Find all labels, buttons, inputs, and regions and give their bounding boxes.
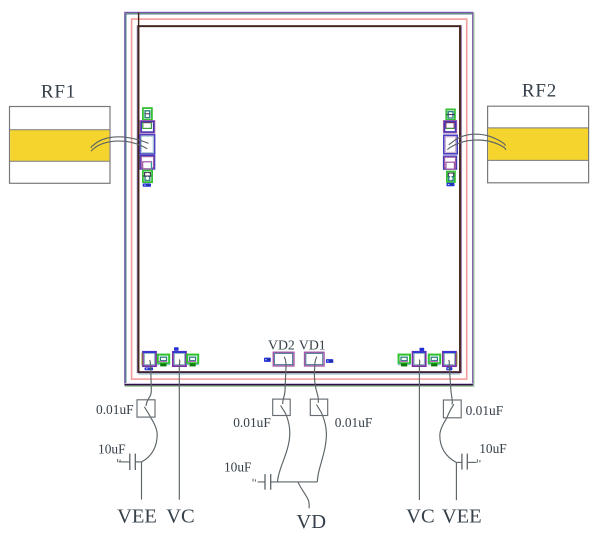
port RF1 microstrip	[10, 107, 111, 184]
svg-text:RF2: RF2	[522, 81, 557, 102]
pad stack right: pad P_R1	[444, 121, 457, 133]
pad stack left: via icon top	[143, 108, 152, 120]
wire VD node horizontal	[271, 481, 318, 483]
chip outline bottom dark accent	[125, 384, 473, 386]
pad stack right: via icon bottom	[447, 172, 455, 183]
bottom-left via icon G2	[187, 355, 199, 367]
svg-text:VC: VC	[406, 506, 434, 528]
bottom-left pad P1 (VEE)	[142, 352, 156, 366]
wire to VEE right	[455, 462, 457, 500]
wire P4 to C6	[449, 360, 453, 405]
capacitor C6 0.01uF box	[443, 400, 461, 418]
chip bottom steelblue line	[139, 373, 461, 375]
pad stack right: via icon top	[446, 109, 455, 120]
svg-text:VD: VD	[296, 511, 326, 533]
wire C3 to 10uF node	[278, 406, 290, 482]
bottom-left P2 blue net tag top	[174, 347, 179, 350]
pad stack left: pad P_L1	[140, 121, 154, 133]
chip outline pink layer	[132, 19, 467, 379]
svg-text:RF1: RF1	[41, 82, 76, 103]
capacitor C1 0.01uF box	[137, 400, 155, 417]
capacitor C7 10uF right	[456, 454, 476, 470]
pad stack left: via icon bottom	[143, 171, 152, 183]
capacitor C4 0.01uF box	[310, 399, 327, 415]
port RF2 microstrip	[488, 106, 589, 183]
wire C4 to 10uF node	[316, 405, 326, 482]
pad stack left: pad P_L3	[140, 156, 154, 169]
wire RF1 to pad lower arc	[91, 141, 147, 151]
bottom-right via icon G4	[428, 355, 440, 367]
svg-text:VD1: VD1	[299, 337, 326, 352]
chip outline bottom green line	[125, 385, 473, 387]
chip outline teal layer (sides+top)	[126, 14, 472, 384]
pad stack right: pad P_R2 (RF)	[444, 135, 457, 154]
chip outline purple layer	[125, 12, 473, 384]
svg-text:10uF: 10uF	[98, 442, 126, 457]
bottom-right P3 blue net tag top	[420, 348, 425, 351]
bottom-right via icon G3	[398, 355, 410, 367]
wire to VD	[298, 482, 309, 508]
wire VD2 to C3	[283, 357, 286, 404]
chip bottom maroon-purple tint	[139, 371, 461, 373]
wire VD1 to C4	[314, 357, 318, 403]
bottom-right P4 blue net tag	[446, 367, 452, 370]
wire P1 to C1	[146, 360, 151, 406]
bottom-left via icon G1	[157, 355, 170, 367]
svg-text:VD2: VD2	[268, 337, 295, 352]
bottom-right pad P3 (VC)	[413, 352, 426, 366]
wire pad to RF2 upper arc	[449, 134, 506, 145]
svg-text:VEE: VEE	[442, 506, 482, 528]
svg-text:0.01uF: 0.01uF	[96, 402, 134, 417]
bottom-left P1 blue net tag	[145, 367, 153, 370]
wire pad to RF2 lower arc	[447, 140, 505, 150]
svg-text:0.01uF: 0.01uF	[466, 403, 504, 418]
VD1 blue net tag right	[326, 359, 333, 363]
capacitor C3 0.01uF box	[273, 399, 291, 415]
diode pad VD1	[305, 352, 324, 366]
chip outline purple fringe around maroon	[137, 26, 461, 373]
svg-text:VC: VC	[166, 506, 194, 528]
C2 polarity ticks	[118, 459, 121, 462]
pad stack left: blue net tag	[143, 183, 151, 186]
wire RF1 to pad upper arc	[91, 137, 149, 148]
diode pad VD2	[273, 352, 294, 366]
pad stack right: blue net tag	[447, 183, 455, 187]
pad stack left: pad P_L2 (RF)	[140, 135, 155, 154]
wire C1 to C2 junction	[142, 407, 158, 462]
bottom-right pad P4 (VEE)	[443, 352, 457, 366]
wire P3 to VC right	[418, 360, 421, 501]
VD2 blue net tag left	[264, 358, 271, 362]
svg-text:VEE: VEE	[117, 506, 157, 528]
C5 polarity ticks	[253, 479, 255, 482]
chip outline maroon layer	[139, 26, 461, 372]
svg-text:10uF: 10uF	[479, 441, 507, 456]
capacitor C5 10uF center	[258, 474, 271, 490]
chip outline green layer	[125, 13, 474, 386]
svg-text:0.01uF: 0.01uF	[233, 415, 271, 430]
svg-text:0.01uF: 0.01uF	[335, 415, 373, 430]
bottom-left pad P2 (VC)	[173, 352, 186, 366]
wire to VEE left	[141, 462, 143, 500]
wire P2 to VC	[178, 360, 181, 500]
chip outline bottom lavender fringe	[125, 383, 473, 385]
C7 polarity ticks	[477, 459, 480, 462]
wire C6 to C7 junction	[440, 404, 456, 462]
pad stack right: pad P_R3	[444, 156, 457, 169]
capacitor C2 10uF	[119, 454, 142, 470]
top-left corner tick	[138, 12, 140, 26]
svg-text:10uF: 10uF	[224, 459, 252, 474]
